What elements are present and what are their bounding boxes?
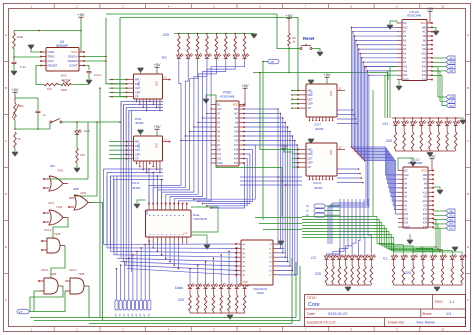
pins PCLO left: [127, 141, 134, 143]
svg-text:Data: Data: [175, 286, 183, 290]
svg-text:IO6: IO6: [422, 65, 427, 69]
svg-text:VDD: VDD: [156, 143, 159, 148]
wires PCH left inputs: [109, 79, 127, 81]
ground (CL): [434, 287, 440, 291]
capacitor C2 0.01u: [87, 72, 92, 73]
ground (CL right): [452, 247, 458, 251]
wire gate rails: [87, 122, 89, 179]
svg-text:CP: CP: [135, 157, 139, 161]
green vertical rail x373: [372, 90, 374, 217]
svg-text:74HC541N: 74HC541N: [193, 217, 207, 221]
svg-text:IO1: IO1: [403, 65, 408, 69]
svg-text:OUT: OUT: [48, 59, 55, 63]
green vertical from CP: [262, 62, 264, 220]
svg-text:IO5: IO5: [234, 153, 239, 156]
power +5V (PCH): [153, 62, 161, 70]
wire PC array top rail: [174, 33, 254, 35]
ground (CTLLO top): [410, 162, 416, 166]
resistor R6 1k: [288, 21, 290, 33]
svg-text:CCH: CCH: [314, 123, 321, 127]
svg-text:220: 220: [178, 298, 184, 302]
svg-text:40163: 40163: [135, 121, 144, 125]
svg-text:A6: A6: [403, 34, 407, 38]
potentiometer RV2 200k: [61, 83, 71, 86]
svg-text:A: A: [5, 33, 7, 37]
ground (PGM top): [203, 99, 209, 103]
resistor network Data 220x8: [189, 288, 191, 295]
svg-text:A7: A7: [404, 177, 408, 181]
wires CCLO Q outputs to right bundle: [337, 168, 359, 170]
svg-text:C: C: [5, 139, 7, 143]
svg-text:E: E: [5, 245, 7, 249]
power +5V (CTLLO): [428, 154, 436, 162]
svg-text:CH: CH: [383, 122, 389, 126]
svg-text:220: 220: [386, 139, 392, 143]
wires into CTLH4 upper IO: [366, 66, 397, 68]
wire PGM bottom gnd: [216, 163, 282, 217]
wire CL bottom rail: [394, 284, 463, 286]
svg-text:D: D: [5, 192, 7, 196]
svg-text:IO4: IO4: [423, 221, 428, 225]
trimmer RV1 100k: [14, 95, 16, 103]
svg-text:IO2: IO2: [217, 158, 222, 161]
svg-text:CET: CET: [135, 86, 141, 90]
net port CP: [268, 59, 279, 64]
green control rails right-bottom: [302, 217, 394, 257]
svg-text:200k: 200k: [61, 88, 68, 92]
svg-text:A12: A12: [217, 108, 222, 111]
svg-text:VCC: VCC: [422, 169, 428, 173]
svg-text:Core: Core: [308, 302, 320, 308]
wires PC bundle into PGM: [181, 140, 211, 142]
green horizontal control rail: [253, 73, 388, 81]
svg-text:VCC: VCC: [243, 281, 248, 284]
LED CLK: [75, 129, 82, 134]
ground (CTLLO bottom): [407, 240, 413, 244]
power +5V (CCH): [323, 72, 331, 80]
bottom green rail 2: [34, 266, 300, 321]
wire switch to CLK node: [62, 121, 120, 123]
svg-text:A5: A5: [403, 38, 407, 42]
wire CLK long vertical: [120, 18, 127, 97]
wire Data bottom rail: [190, 312, 245, 314]
switch SW1: [50, 119, 62, 124]
svg-text:IO7: IO7: [422, 60, 427, 64]
ground (CTLH4 right): [433, 31, 439, 35]
svg-text:GND: GND: [48, 50, 56, 54]
svg-text:7402: 7402: [80, 191, 87, 195]
svg-text:MR: MR: [135, 140, 139, 144]
power +5V (CTLH4): [426, 6, 434, 14]
left blue bundle verticals: [120, 102, 122, 259]
svg-text:A11: A11: [422, 43, 427, 47]
svg-text:MR: MR: [308, 148, 312, 152]
svg-text:220: 220: [315, 272, 321, 276]
power +5V (PGM): [241, 83, 249, 91]
svg-text:OE: OE: [234, 131, 238, 134]
net ports bus D0-D8: [116, 269, 118, 300]
bottom green rail 1: [30, 262, 296, 318]
svg-text:WE: WE: [422, 25, 426, 29]
bus taps buffer bottom (descending diagonal): [148, 243, 150, 246]
push button Reset: [300, 44, 312, 50]
LED array CH x8: [395, 118, 397, 122]
svg-text:A2: A2: [404, 199, 408, 203]
svg-text:0.01u: 0.01u: [94, 73, 102, 77]
svg-text:NC: NC: [404, 169, 408, 173]
svg-text:PE: PE: [135, 82, 139, 86]
svg-text:+5V: +5V: [241, 83, 249, 88]
capacitor C3 1u: [15, 97, 38, 99]
svg-text:IO6: IO6: [423, 212, 428, 216]
ground (DATA buf top): [134, 204, 140, 208]
pins CCLO left: [298, 149, 306, 151]
pins PCH left: [127, 79, 134, 81]
ground (reset): [312, 49, 320, 52]
LED array PC x8: [178, 52, 180, 55]
counter PCH 40163: [134, 74, 163, 99]
svg-text:WE: WE: [234, 108, 238, 111]
svg-text:IO3: IO3: [422, 78, 427, 82]
svg-text:VDD: VDD: [330, 91, 333, 96]
wire CH bottom rail: [396, 150, 456, 152]
svg-text:MR: MR: [135, 78, 139, 82]
wire to switch: [49, 122, 51, 129]
svg-text:RV2: RV2: [61, 74, 67, 78]
svg-text:MR: MR: [308, 89, 312, 93]
LED array Data x8: [188, 283, 195, 288]
resistor network CH 220x8: [395, 125, 397, 132]
svg-text:IO7: IO7: [423, 208, 428, 212]
svg-text:VDD: VDD: [330, 150, 333, 155]
horizontal bus PGM to CCLO: [240, 176, 302, 178]
net flags CTLLO outputs: [433, 210, 446, 212]
capacitor C1 0.1u: [13, 57, 15, 61]
wire gate outputs to bottom rails: [30, 286, 63, 311]
svg-text:B: B: [5, 86, 7, 90]
ground (Data): [227, 315, 233, 319]
svg-text:1u: 1u: [43, 113, 47, 117]
svg-text:1/1: 1/1: [446, 312, 451, 316]
svg-text:RESET: RESET: [48, 64, 58, 68]
svg-text:TITLE:: TITLE:: [307, 296, 317, 300]
green long rails from left: [255, 217, 302, 219]
svg-text:A1: A1: [404, 203, 408, 207]
svg-text:220: 220: [405, 271, 411, 275]
power +5V (CCLO): [280, 143, 288, 151]
svg-text:NC: NC: [422, 30, 426, 34]
svg-text:N0: N0: [449, 69, 453, 73]
wire CP to vertical: [263, 61, 268, 63]
ground (CCLO): [308, 139, 314, 143]
wire 555 RESET to rail: [36, 66, 44, 85]
svg-text:+5V: +5V: [153, 62, 161, 67]
ground (PC array): [251, 34, 257, 38]
svg-text:A8: A8: [423, 34, 427, 38]
svg-text:+5V: +5V: [11, 87, 19, 92]
svg-text:CP: CP: [308, 165, 312, 169]
svg-text:R6: R6: [293, 36, 297, 40]
pins PGM left: [211, 104, 216, 106]
svg-text:IO3: IO3: [403, 73, 408, 77]
svg-text:7408: 7408: [54, 232, 61, 236]
svg-text:AO: AO: [449, 227, 454, 231]
counter PCLO 40163: [134, 136, 163, 161]
wire CONT to C2: [84, 66, 89, 71]
bus band 8 horizontal lines: [104, 243, 237, 245]
wire RV1 node: [15, 128, 50, 130]
svg-text:D: D: [467, 192, 469, 196]
power flag +5V (reset): [285, 13, 293, 21]
ground (U12): [278, 241, 284, 245]
svg-text:A2: A2: [403, 51, 407, 55]
svg-text:A11: A11: [234, 126, 239, 129]
svg-text:AT28C64B: AT28C64B: [220, 95, 234, 99]
svg-text:OE: OE: [422, 47, 426, 51]
svg-text:C: C: [467, 139, 469, 143]
pins CCH right: [337, 90, 345, 92]
svg-text:A4: A4: [403, 43, 407, 47]
svg-text:A12: A12: [403, 25, 408, 29]
bus fan into CTLH4: [352, 26, 398, 28]
wires DATA buf top to staircase: [148, 169, 150, 204]
svg-text:PE: PE: [308, 93, 312, 97]
svg-text:CLK: CLK: [84, 129, 90, 133]
pins PCLO right: [163, 141, 170, 143]
svg-text:B: B: [467, 86, 469, 90]
pins CCH left: [298, 90, 306, 92]
svg-text:CEP: CEP: [135, 152, 141, 156]
svg-text:A9: A9: [424, 186, 428, 190]
svg-text:REV.: REV.: [435, 300, 443, 304]
svg-text:NC: NC: [217, 104, 221, 107]
wire TRIG node: [14, 56, 41, 58]
svg-text:A7: A7: [403, 30, 407, 34]
svg-text:A0: A0: [403, 60, 407, 64]
resistor R3 1k: [14, 132, 17, 148]
green rail to CCH: [297, 65, 299, 91]
pins CCH bottom: [309, 117, 311, 121]
svg-text:IO4: IO4: [422, 73, 427, 77]
net ports below CCLO: [314, 204, 325, 208]
svg-text:Date:: Date:: [307, 312, 316, 316]
wire DATA buf enable: [191, 207, 218, 232]
svg-text:IO2: IO2: [404, 216, 409, 220]
svg-text:VCC: VCC: [421, 21, 427, 25]
svg-text:VDD: VDD: [156, 81, 159, 86]
svg-text:A0: A0: [404, 208, 408, 212]
ground (PCLO): [138, 130, 144, 134]
svg-text:220: 220: [80, 153, 85, 157]
svg-text:JMP: JMP: [73, 187, 79, 191]
ground (C1): [11, 71, 17, 75]
svg-text:A3: A3: [404, 195, 408, 199]
svg-text:IO1: IO1: [404, 212, 409, 216]
svg-text:+5V: +5V: [426, 6, 434, 11]
title block: [305, 295, 466, 327]
svg-text:A: A: [467, 33, 469, 37]
wire 555 right side: [84, 56, 106, 58]
svg-text:A5: A5: [404, 186, 408, 190]
svg-text:Sheet:: Sheet:: [422, 312, 432, 316]
wire CH top rail: [392, 117, 460, 119]
pins PCLO bottom: [136, 161, 138, 164]
bus PC bundle left-turn elbows: [149, 141, 181, 204]
pins CCLO bottom: [309, 176, 311, 180]
svg-text:+5V: +5V: [285, 13, 293, 18]
svg-text:7402: 7402: [57, 169, 64, 173]
svg-text:CEP: CEP: [308, 102, 314, 106]
wire top green rail 2: [120, 18, 298, 66]
svg-text:A3: A3: [403, 47, 407, 51]
svg-text:GND: GND: [404, 225, 410, 229]
wires CCLO inputs: [292, 149, 298, 151]
memory CTLH4 AT28C64B: [402, 20, 427, 81]
svg-text:U10.1: U10.1: [41, 268, 49, 272]
buffer DATA 74HC541N (horizontal): [146, 210, 192, 237]
svg-text:VCC: VCC: [71, 50, 78, 54]
svg-text:A12: A12: [404, 173, 409, 177]
svg-text:+5V: +5V: [323, 72, 331, 77]
svg-text:CE: CE: [423, 203, 427, 207]
svg-text:CP: CP: [270, 60, 274, 64]
resistor R2 100: [44, 83, 58, 86]
svg-text:IO2: IO2: [403, 69, 408, 73]
svg-text:IO0: IO0: [217, 149, 222, 152]
bus below PCLO: [104, 168, 164, 170]
svg-text:40163: 40163: [132, 186, 141, 190]
power flag +5V (555): [77, 12, 85, 20]
svg-text:40163: 40163: [314, 186, 323, 190]
ground (CH rail): [460, 120, 466, 124]
ground (CC): [345, 287, 351, 291]
ground (555 GND pin): [31, 45, 41, 52]
svg-text:40163: 40163: [315, 127, 324, 131]
svg-text:CET: CET: [308, 156, 314, 160]
svg-text:A4: A4: [404, 190, 408, 194]
LED array CL x8: [391, 254, 398, 259]
svg-text:AT28C64B: AT28C64B: [407, 14, 421, 18]
svg-text:A8: A8: [424, 182, 428, 186]
svg-text:NC: NC: [403, 21, 407, 25]
svg-text:SE555P: SE555P: [56, 44, 68, 48]
resistor R4 220: [76, 148, 79, 163]
svg-text:PC: PC: [162, 56, 167, 60]
LED array CC x8: [324, 254, 331, 259]
svg-text:EasyEDA V5.9.22: EasyEDA V5.9.22: [307, 320, 336, 324]
wires CCH inputs: [292, 90, 298, 92]
svg-text:E: E: [467, 245, 469, 249]
ground (CTLH4 bottom): [396, 86, 402, 90]
wire reset rail: [277, 14, 289, 49]
svg-text:100: 100: [47, 87, 52, 91]
wires PCLO left inputs: [109, 141, 127, 143]
svg-text:CE: CE: [235, 140, 239, 143]
wire gate3 out: [53, 218, 68, 239]
svg-text:7402: 7402: [56, 205, 63, 209]
wire DISCH/THRES verticals: [106, 18, 127, 84]
svg-text:VCC: VCC: [233, 104, 238, 107]
svg-text:CONT: CONT: [69, 64, 78, 68]
wire +5V to 555: [80, 20, 82, 52]
wire CC bottom rail: [327, 284, 372, 286]
svg-text:A10: A10: [234, 135, 239, 138]
wires U12 right: [278, 243, 283, 245]
bus lines 11-13: [332, 67, 366, 245]
wire gate4 out: [51, 246, 65, 279]
net port ZY: [17, 309, 29, 314]
svg-text:TRIG: TRIG: [48, 55, 56, 59]
svg-text:A6: A6: [404, 182, 408, 186]
svg-text:ZY: ZY: [19, 310, 23, 314]
svg-text:7408: 7408: [78, 272, 85, 276]
svg-text:PCLO: PCLO: [131, 181, 140, 185]
svg-text:IO3: IO3: [423, 225, 428, 229]
pins PCH bottom: [136, 99, 138, 102]
svg-text:A1: A1: [403, 56, 407, 60]
svg-text:7408: 7408: [50, 272, 57, 276]
svg-text:NC: NC: [234, 113, 238, 116]
green elbows CTLH4 IO: [390, 67, 397, 119]
svg-text:OE: OE: [423, 195, 427, 199]
svg-text:IO3: IO3: [234, 162, 239, 165]
svg-text:GND: GND: [146, 209, 149, 215]
svg-text:CET: CET: [135, 148, 141, 152]
svg-text:A10: A10: [422, 199, 427, 203]
wires CCH Q outputs to right bundle: [337, 109, 353, 111]
svg-text:100k: 100k: [17, 35, 24, 39]
ground (CTLLO right): [437, 190, 443, 194]
svg-text:220: 220: [163, 33, 169, 37]
svg-text:INC: INC: [50, 164, 56, 168]
svg-text:IO4: IO4: [234, 158, 239, 161]
svg-text:CEP: CEP: [135, 90, 141, 94]
svg-text:DATA: DATA: [257, 291, 264, 295]
svg-text:CP: CP: [135, 95, 139, 99]
wire top to R1: [14, 30, 81, 32]
wire CET rail vertical: [99, 88, 101, 317]
resistor network CL 220x8: [393, 259, 395, 266]
svg-text:IO5: IO5: [423, 216, 428, 220]
buffer U12 74HC541N (vertical): [241, 240, 273, 285]
wire JMP out: [88, 203, 103, 321]
svg-text:CP: CP: [308, 106, 312, 110]
svg-text:+5V: +5V: [280, 143, 288, 148]
bus below PCH: [121, 101, 163, 103]
svg-text:U10.3: U10.3: [44, 228, 52, 232]
svg-text:CL: CL: [383, 257, 388, 261]
svg-text:CE: CE: [422, 56, 426, 60]
wires PGM right to bus: [244, 109, 278, 244]
svg-text:GND: GND: [403, 78, 409, 82]
resistor R1 100k: [13, 33, 16, 49]
svg-text:IO5: IO5: [422, 69, 427, 73]
svg-text:+5V: +5V: [77, 12, 85, 17]
counter CCH 40163: [306, 84, 337, 117]
counter CCLO 40163: [306, 143, 337, 176]
green elbows CTLLO bottom right: [420, 220, 436, 248]
svg-text:GND: GND: [217, 162, 223, 165]
svg-text:Drawn By:: Drawn By:: [388, 320, 405, 324]
power flag +5V (left): [11, 87, 19, 95]
svg-text:1.1: 1.1: [449, 300, 454, 304]
ground (R4): [74, 168, 80, 172]
memory CTLLO AT28C64B: [403, 167, 428, 228]
net flags CTLH4 outputs: [432, 57, 446, 59]
svg-text:U9.3: U9.3: [48, 201, 54, 205]
svg-text:VCC: VCC: [183, 233, 188, 235]
svg-text:Reset: Reset: [303, 36, 315, 41]
